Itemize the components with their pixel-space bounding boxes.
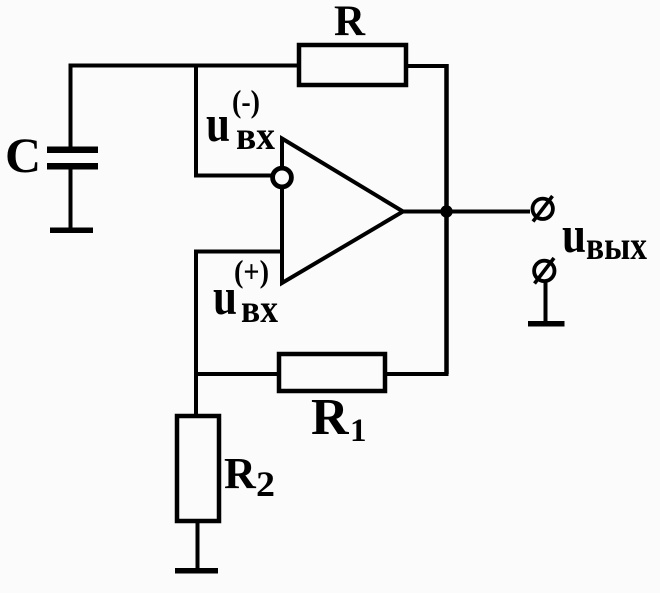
ground under R2 <box>175 568 218 574</box>
wire: top net from C to R box <box>71 66 300 149</box>
svg-text:u: u <box>206 96 230 153</box>
svg-text:(+): (+) <box>234 253 269 289</box>
wire: R1 right lead <box>385 372 449 376</box>
svg-text:R: R <box>334 0 366 45</box>
wire: R box right to feedback corner <box>406 64 447 68</box>
svg-text:R: R <box>224 449 257 498</box>
wire: C bottom lead <box>69 169 73 229</box>
op-amp U1 <box>282 139 403 284</box>
svg-text:1: 1 <box>350 413 367 449</box>
svg-text:C: C <box>5 127 41 183</box>
svg-text:R: R <box>311 389 350 446</box>
terminal ground side (circle with slash) <box>534 261 554 281</box>
node: output junction dot <box>440 205 452 217</box>
terminal output (circle with slash) <box>533 199 553 219</box>
svg-text:u: u <box>562 207 586 264</box>
svg-text:вх: вх <box>241 286 278 331</box>
wire: output to terminal <box>403 210 530 214</box>
resistor R <box>299 45 406 85</box>
wire: R2 bottom lead <box>196 521 200 569</box>
wire: branch to inverting input <box>196 66 272 176</box>
resistor R2 <box>177 416 219 521</box>
svg-text:вх: вх <box>236 113 275 158</box>
svg-text:вых: вых <box>586 223 647 268</box>
wire: terminal to ground <box>544 281 548 323</box>
ground under terminal <box>528 321 565 327</box>
ground under C <box>50 228 93 234</box>
resistor R1 <box>279 354 385 391</box>
inversion bubble <box>273 168 292 187</box>
svg-text:2: 2 <box>256 464 275 504</box>
wire: R1 left lead <box>196 372 279 376</box>
wire: branch to non-inverting input <box>196 252 282 417</box>
wire: feedback vertical from R to R1 <box>444 64 449 374</box>
capacitor C <box>47 147 98 154</box>
